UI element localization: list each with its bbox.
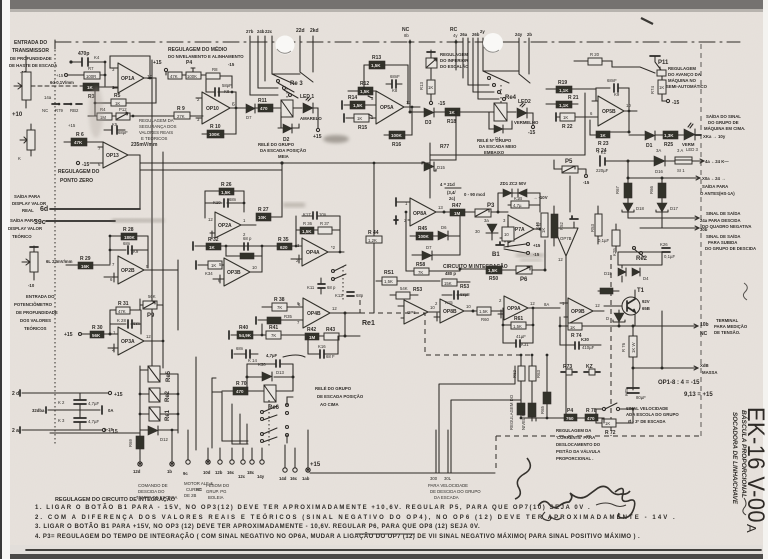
node RC 4y	[450, 27, 458, 70]
svg-text:R52: R52	[559, 222, 564, 230]
resistor R53 vertical	[590, 206, 602, 244]
svg-text:Re2: Re2	[636, 256, 648, 262]
svg-text:32dba: 32dba	[32, 408, 45, 413]
svg-text:R66: R66	[649, 186, 654, 194]
svg-text:R67: R67	[615, 186, 620, 194]
svg-text:100K: 100K	[391, 133, 403, 138]
resistor R12	[348, 81, 376, 95]
svg-text:30: 30	[475, 229, 480, 234]
relay Re2 contact block	[618, 247, 662, 266]
trimmer P3	[475, 203, 508, 217]
resistor R48 vertical	[535, 213, 548, 237]
svg-text:OP10: OP10	[206, 106, 219, 112]
svg-text:39c: 39c	[34, 219, 46, 226]
capacitor K3	[58, 410, 99, 429]
scribble zigzag	[538, 486, 630, 507]
dashed vertical at terminal 1ab	[495, 436, 497, 470]
resistor R67 vertical	[615, 178, 632, 203]
svg-text:1M: 1M	[454, 211, 461, 216]
svg-text:22d: 22d	[296, 28, 305, 34]
punch hole left	[276, 36, 295, 55]
svg-text:3. LIGAR O BOTÃO B1 PARA +15V: 3. LIGAR O BOTÃO B1 PARA +15V, NO OP3 (1…	[35, 523, 480, 530]
label REGULAGEM DO PONTO ZERO	[58, 169, 100, 184]
svg-text:K34: K34	[205, 271, 213, 276]
trimmer P11	[650, 56, 669, 76]
svg-text:NC: NC	[42, 108, 48, 113]
svg-text:12d: 12d	[133, 469, 141, 474]
svg-text:26b: 26b	[472, 32, 480, 37]
svg-text:PARA MEDIÇÃO: PARA MEDIÇÃO	[714, 324, 748, 329]
svg-text:68pF: 68pF	[118, 130, 128, 135]
svg-text:68n: 68n	[123, 241, 131, 246]
zener 3a	[475, 218, 498, 240]
svg-text:100R: 100R	[86, 74, 96, 79]
capacitor K15 68pF	[442, 291, 470, 305]
svg-text:OP1A: OP1A	[121, 76, 135, 82]
top frame wire	[430, 93, 585, 198]
terminal 32dba	[32, 406, 114, 414]
op-amp OP10	[196, 92, 242, 124]
svg-text:K8: K8	[392, 88, 398, 93]
svg-text:10d: 10d	[203, 470, 211, 475]
resistor R30	[90, 325, 118, 338]
trimmer P12	[112, 107, 176, 120]
svg-text:Ø - 3º DE ESCADA: Ø - 3º DE ESCADA	[628, 419, 666, 424]
svg-text:P3: P3	[487, 203, 495, 209]
svg-text:VALORES REAIS: VALORES REAIS	[139, 130, 173, 135]
resistor R42	[305, 327, 324, 340]
svg-text:100K: 100K	[187, 74, 197, 79]
resistor R47	[450, 203, 475, 216]
svg-text:8b: 8b	[404, 33, 409, 38]
wire rail right of relay column	[195, 357, 197, 450]
svg-text:OP9A: OP9A	[507, 306, 521, 312]
bottom border rule	[26, 549, 761, 551]
svg-text:-15: -15	[438, 101, 445, 107]
Re3 terminal labels	[246, 28, 319, 34]
dashed net boundary bottom horizontal	[496, 435, 700, 437]
resistor R21	[546, 95, 579, 108]
resistor RS1	[376, 270, 440, 285]
svg-text:D12: D12	[160, 437, 168, 442]
svg-text:2c): 2c)	[449, 196, 456, 201]
svg-text:PISTÃO DA VÁLVULA: PISTÃO DA VÁLVULA	[556, 449, 600, 454]
svg-text:R 26: R 26	[221, 182, 232, 188]
resistor R41	[261, 324, 305, 339]
dashed net boundary vertical mid	[610, 255, 612, 436]
svg-text:65B: 65B	[642, 306, 650, 311]
resistor R24	[596, 131, 645, 155]
svg-text:DA ESCADA MEIO: DA ESCADA MEIO	[479, 144, 517, 149]
svg-text:470p: 470p	[78, 51, 89, 57]
output wire 30b	[640, 226, 756, 251]
svg-text:D4: D4	[643, 276, 649, 281]
resistor R29	[66, 256, 110, 269]
svg-text:D16: D16	[655, 169, 663, 174]
svg-text:MEIA: MEIA	[278, 154, 289, 159]
supply +15 node	[153, 60, 168, 75]
svg-text:2kd: 2kd	[310, 28, 319, 34]
svg-text:K4: K4	[94, 55, 100, 60]
svg-text:68n: 68n	[133, 321, 141, 326]
switch B1	[492, 242, 541, 258]
svg-text:41µF: 41µF	[516, 334, 526, 339]
Re4 contact set	[468, 71, 530, 101]
svg-text:Re 3: Re 3	[290, 81, 303, 87]
trimmer P6	[516, 240, 547, 283]
svg-text:R 78: R 78	[586, 408, 597, 414]
svg-text:68nF: 68nF	[607, 78, 617, 83]
svg-text:D13: D13	[276, 370, 284, 375]
rail massa XdB	[632, 311, 718, 375]
svg-text:R43: R43	[326, 327, 335, 333]
svg-text:68 F: 68 F	[326, 354, 335, 359]
svg-text:1,5K: 1,5K	[302, 229, 312, 234]
svg-text:AMARELO: AMARELO	[300, 116, 322, 121]
svg-text:-15: -15	[528, 130, 535, 136]
resistor R28	[110, 227, 148, 240]
resistor R72	[596, 409, 633, 436]
svg-text:DA ESCADA POSIÇÃO: DA ESCADA POSIÇÃO	[260, 148, 307, 153]
svg-text:7K: 7K	[277, 305, 282, 310]
svg-text:PARA SUBIDA: PARA SUBIDA	[708, 240, 737, 245]
svg-text:R19: R19	[558, 80, 567, 86]
resistor R73	[561, 364, 577, 375]
svg-text:D17: D17	[670, 206, 678, 211]
svg-text:DE ESCADA POSIÇÃO: DE ESCADA POSIÇÃO	[317, 394, 364, 399]
contact row NC R79 RB2	[42, 95, 82, 113]
diode D13 loop	[246, 364, 295, 381]
svg-text:DO GRUPO DE: DO GRUPO DE	[708, 120, 739, 125]
svg-text:2 d: 2 d	[12, 391, 19, 397]
strike mark on note 4	[355, 533, 415, 535]
resistor R75	[598, 288, 619, 294]
svg-text:1,5K: 1,5K	[488, 268, 498, 273]
svg-text:R12: R12	[360, 81, 369, 87]
relay coil Re1	[140, 407, 178, 421]
svg-text:ZD1 ZC2 50V: ZD1 ZC2 50V	[500, 181, 526, 186]
svg-text:E TEÓRICOS: E TEÓRICOS	[141, 136, 168, 141]
svg-text:18c: 18c	[247, 470, 255, 475]
svg-text:A: A	[744, 524, 759, 533]
svg-text:1K: 1K	[428, 85, 433, 90]
label +15 mid	[310, 462, 495, 473]
svg-text:RELÉ DO GRUPO: RELÉ DO GRUPO	[315, 386, 352, 391]
svg-text:4,7µ: 4,7µ	[513, 203, 522, 208]
svg-text:R48: R48	[535, 222, 540, 230]
svg-text:-10: -10	[28, 283, 35, 288]
svg-text:R53: R53	[460, 284, 469, 290]
svg-text:Re2: Re2	[165, 390, 171, 402]
svg-text:3A: 3A	[656, 148, 661, 153]
smudge right mid squiggle	[743, 283, 747, 300]
svg-text:300: 300	[430, 476, 438, 481]
capacitor K9b 68n	[110, 241, 148, 254]
svg-text:12: 12	[595, 303, 600, 308]
svg-text:DE HASTE DE ESCADA: DE HASTE DE ESCADA	[9, 63, 57, 68]
svg-text:80µF: 80µF	[636, 395, 646, 400]
svg-text:EMBAIXO: EMBAIXO	[484, 150, 505, 155]
label OP supplies	[658, 380, 713, 398]
smudge streak mid	[283, 203, 305, 207]
svg-text:47K: 47K	[74, 140, 83, 145]
svg-text:6d 0,1V/mm: 6d 0,1V/mm	[50, 80, 74, 85]
svg-text:'CORRENTE' PARA: 'CORRENTE' PARA	[556, 435, 595, 440]
svg-text:PARA VELOCIDADE: PARA VELOCIDADE	[428, 483, 468, 488]
resistor R22	[556, 111, 598, 130]
L wire upper	[439, 366, 515, 460]
resistor R27	[256, 163, 282, 221]
op-amp OP9B	[560, 298, 604, 324]
Re3 contact set	[250, 72, 313, 98]
resistor R4	[88, 107, 112, 120]
svg-text:R13: R13	[419, 82, 424, 90]
trimmer P5	[554, 159, 590, 212]
wire -15 rail top	[50, 427, 140, 433]
left white margin	[0, 0, 2, 559]
svg-text:R 9: R 9	[177, 106, 185, 112]
svg-text:1K: 1K	[600, 133, 607, 138]
label sub rel	[0, 0, 1, 1]
scanner bottom dark band	[0, 553, 768, 559]
svg-text:O ANTES(HS-1A): O ANTES(HS-1A)	[700, 191, 735, 196]
label 54K R53	[390, 286, 422, 299]
op-amp OP1A	[112, 63, 156, 93]
svg-text:R 21: R 21	[568, 95, 579, 101]
svg-text:R65: R65	[540, 406, 545, 414]
label pesom	[206, 483, 230, 500]
svg-text:DE 2B: DE 2B	[184, 493, 197, 498]
svg-text:SINAL DE SAÍDA: SINAL DE SAÍDA	[706, 234, 741, 239]
LED2	[514, 99, 539, 136]
label RELE N GRUPO	[477, 138, 517, 155]
potentiometer zero	[18, 124, 35, 161]
resistor R70	[222, 381, 264, 395]
svg-text:92V: 92V	[642, 299, 650, 304]
terminal symbols row2	[283, 468, 310, 472]
svg-text:D15: D15	[437, 165, 445, 170]
svg-text:12: 12	[146, 334, 151, 339]
svg-text:Re6: Re6	[268, 405, 280, 411]
capacitor 68p R33	[226, 236, 262, 259]
capacitor K2	[58, 393, 99, 410]
svg-text:24a PARA DESCIDA: 24a PARA DESCIDA	[700, 218, 741, 223]
margin tick right	[743, 498, 746, 515]
svg-text:1K: 1K	[659, 85, 664, 90]
svg-text:+10: +10	[12, 112, 23, 118]
svg-text:180K: 180K	[124, 235, 136, 240]
svg-text:R 76: R 76	[621, 342, 626, 352]
svg-text:*2: *2	[331, 245, 336, 250]
svg-text:58pF: 58pF	[222, 83, 232, 88]
svg-text:3a: 3a	[484, 218, 489, 223]
resistor R13b vertical	[419, 80, 445, 107]
capacitor K17	[302, 212, 329, 219]
svg-text:Re1: Re1	[362, 320, 375, 327]
svg-text:OP3A: OP3A	[121, 339, 135, 345]
svg-text:1,5K: 1,5K	[479, 309, 488, 314]
svg-text:R 29: R 29	[80, 256, 91, 262]
left dashed vertical boundary	[54, 50, 56, 446]
resistor R36	[300, 221, 314, 234]
svg-text:760: 760	[566, 416, 574, 421]
svg-text:SINAL VELOCIDADE: SINAL VELOCIDADE	[626, 406, 668, 411]
label 480p cap	[442, 271, 470, 290]
transistor T1	[604, 288, 650, 326]
diode D4 loop	[489, 112, 512, 141]
output wire 24a	[628, 211, 752, 229]
svg-text:R 30: R 30	[92, 325, 103, 331]
svg-text:OP13: OP13	[106, 153, 119, 159]
svg-text:D18: D18	[636, 206, 644, 211]
wire display teorico	[8, 218, 115, 239]
op-amp OP7B down	[554, 216, 578, 268]
svg-text:RS1: RS1	[384, 270, 394, 276]
svg-text:14y: 14y	[257, 474, 265, 479]
wire node to op1a	[104, 61, 107, 86]
resistor R23	[590, 111, 629, 147]
svg-text:R15: R15	[358, 125, 367, 131]
svg-text:12: 12	[332, 306, 337, 311]
svg-text:R16: R16	[392, 142, 401, 148]
resistor R59	[544, 302, 560, 308]
node tick at bus start	[54, 40, 56, 49]
svg-text:BOLEIA: BOLEIA	[208, 495, 224, 500]
node Re1 dashed link	[359, 300, 361, 313]
svg-text:+15: +15	[68, 123, 76, 128]
svg-text:7K: 7K	[271, 333, 276, 338]
svg-text:22c: 22c	[265, 29, 273, 34]
svg-text:X0a ←24 →: X0a ←24 →	[702, 176, 725, 181]
svg-text:REAL: REAL	[22, 208, 34, 213]
capacitor K1 220uF	[596, 150, 628, 173]
op-amp OP7A	[500, 215, 548, 243]
svg-text:R7: R7	[88, 66, 94, 71]
resistor R13	[364, 55, 408, 104]
svg-text:ENTRADA DO: ENTRADA DO	[14, 40, 47, 46]
svg-text:K26: K26	[660, 242, 668, 247]
svg-text:DA ESCADA: DA ESCADA	[434, 495, 459, 500]
svg-text:1K: 1K	[115, 101, 120, 106]
wire stubs bottom	[439, 460, 451, 473]
svg-text:27b: 27b	[246, 29, 254, 34]
svg-text:1K: 1K	[605, 421, 610, 426]
wire to P11	[612, 67, 655, 73]
resistor R69 vertical	[128, 433, 144, 462]
svg-text:6d: 6d	[40, 206, 48, 213]
svg-text:K1B: K1B	[514, 196, 522, 201]
resistor R5	[94, 78, 156, 116]
L wire lower	[451, 400, 521, 460]
resistor R3	[80, 83, 118, 100]
svg-text:K9: K9	[133, 249, 139, 254]
svg-text:K16: K16	[318, 344, 326, 349]
svg-text:OP3B: OP3B	[227, 270, 241, 276]
svg-text:MÁQUINA EM CIMA.: MÁQUINA EM CIMA.	[704, 126, 745, 131]
op-amp OP3B	[213, 246, 262, 286]
svg-text:1. LIGAR O BOTÃO B1 PARA - 15: 1. LIGAR O BOTÃO B1 PARA - 15V, NO OP3(1…	[35, 504, 590, 511]
relay column rails	[139, 366, 180, 433]
resistor R45	[410, 226, 433, 240]
svg-text:OP5A: OP5A	[380, 105, 394, 111]
svg-text:R79: R79	[55, 108, 63, 113]
resistor R15	[344, 114, 376, 131]
svg-text:1K W: 1K W	[631, 342, 636, 353]
svg-text:+ K1: + K1	[597, 150, 607, 155]
diode D12	[140, 426, 178, 442]
resistor R37	[295, 216, 340, 251]
svg-text:1K: 1K	[87, 85, 94, 90]
svg-text:SINAL DE SAÍDA: SINAL DE SAÍDA	[706, 211, 741, 216]
label REGULAGEM DO INFERIOR	[440, 52, 469, 69]
svg-text:12c: 12c	[238, 474, 246, 479]
diode D6	[433, 216, 460, 255]
svg-text:10: 10	[504, 232, 509, 237]
svg-text:R45: R45	[418, 226, 427, 232]
svg-text:DO INFERIOR: DO INFERIOR	[440, 58, 469, 63]
svg-text:0,1µF: 0,1µF	[598, 238, 609, 243]
feedback wire OP1A	[110, 56, 151, 79]
svg-text:DOS VALORES: DOS VALORES	[20, 318, 51, 323]
scribble dash after note1	[596, 503, 626, 507]
svg-text:1,5K: 1,5K	[513, 324, 522, 329]
capacitor K10	[205, 197, 244, 207]
svg-text:R47: R47	[452, 203, 461, 209]
svg-text:P4: P4	[567, 408, 573, 414]
svg-text:1b: 1b	[167, 469, 172, 474]
svg-text:12b: 12b	[215, 470, 223, 475]
svg-text:R25: R25	[664, 142, 673, 148]
capacitor K11	[307, 278, 336, 294]
switch fan contacts	[261, 397, 294, 448]
resistor R7	[56, 66, 106, 79]
svg-text:10: 10	[466, 304, 471, 309]
Re4 coil dotted link	[500, 85, 502, 103]
resistor R8	[206, 67, 232, 88]
svg-text:K25: K25	[624, 388, 629, 396]
op-amp OP9A	[498, 296, 545, 320]
capacitor K29 vertical	[598, 224, 620, 256]
switch lower	[596, 403, 635, 411]
trimmer P4	[168, 60, 206, 92]
svg-text:+15: +15	[64, 332, 73, 338]
feedback wire OP10	[231, 91, 238, 110]
svg-text:DISPLAY VALOR: DISPLAY VALOR	[8, 226, 43, 231]
smudge left	[89, 86, 103, 138]
trimmer regulagem inferior	[426, 50, 437, 79]
svg-text:470: 470	[260, 106, 268, 111]
scribble right curl	[615, 488, 635, 518]
diode D17 zener	[656, 203, 678, 228]
dashed boundary integrator rect	[360, 313, 534, 355]
svg-text:480 p: 480 p	[445, 271, 456, 276]
svg-text:POTENCIÔMETRO: POTENCIÔMETRO	[14, 302, 53, 307]
op-amp OP2A loop	[205, 191, 245, 218]
capacitor K19 box	[502, 221, 514, 247]
punch hole right	[483, 33, 503, 53]
svg-text:26a: 26a	[460, 32, 468, 37]
svg-text:68p: 68p	[356, 293, 364, 298]
svg-text:SEGURANÇA DOS: SEGURANÇA DOS	[139, 124, 177, 129]
resistor KE	[584, 364, 600, 375]
svg-text:+15: +15	[313, 134, 322, 140]
svg-text:R13: R13	[372, 55, 381, 61]
smudge top corner stroke	[641, 18, 653, 24]
op-amp OP8B	[434, 299, 504, 323]
svg-text:R 32: R 32	[208, 237, 219, 243]
resistor R40	[229, 325, 266, 339]
svg-text:4,7µF: 4,7µF	[88, 419, 99, 424]
